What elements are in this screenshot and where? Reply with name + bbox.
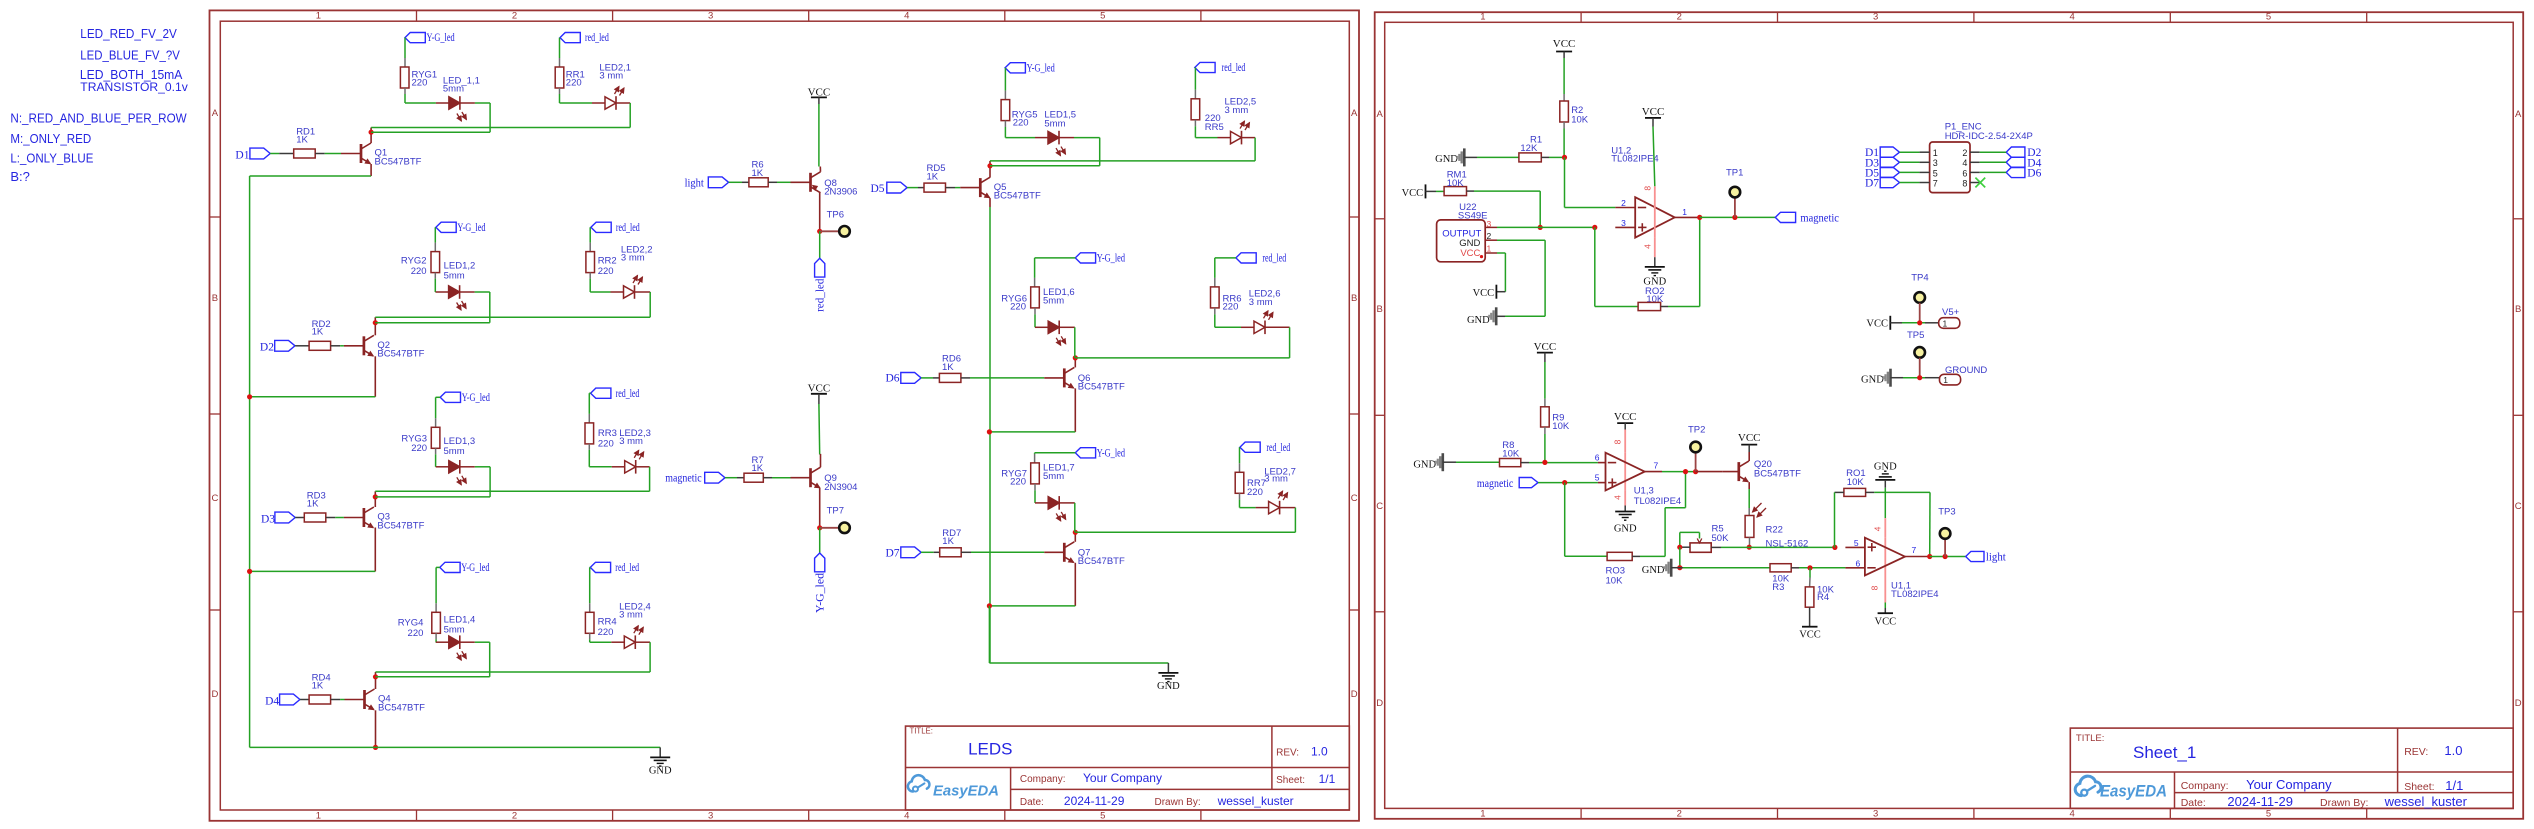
wire [819,231,821,258]
pin 3 [1919,158,1937,168]
op-amp U1,3 TL082IPE4 [1606,453,1682,508]
svg-text:V5+: V5+ [1942,307,1960,318]
test point ground [1914,347,1925,378]
wire [725,477,744,479]
pin 7 [1919,178,1937,188]
wire [1254,138,1256,161]
wire [374,491,376,507]
svg-text:1K: 1K [296,134,308,145]
wire [1662,471,1696,473]
svg-text:BC547BTF: BC547BTF [1754,468,1801,479]
net flag D3 [261,512,295,525]
svg-text:5mm: 5mm [443,84,464,95]
svg-text:RYG4: RYG4 [398,617,424,628]
ground GND [1467,307,1496,326]
pin 3 [1485,219,1497,229]
svg-text:2N3904: 2N3904 [824,482,857,493]
wire [921,377,939,379]
wire [1074,138,1100,166]
net flag D4 [2006,157,2041,169]
svg-text:2: 2 [512,811,517,822]
wire [818,394,821,455]
wire [1980,171,2007,173]
svg-text:10K: 10K [1571,114,1589,125]
svg-text:5mm: 5mm [1044,118,1065,129]
svg-text:VCC: VCC [1799,630,1821,641]
wire [989,606,1168,663]
photoresistor R22 NSL-5162 [1745,503,1808,549]
wire [250,746,661,748]
svg-text:C: C [1351,493,1358,504]
svg-text:red_led: red_led [616,388,640,400]
svg-text:GND: GND [1614,524,1637,535]
svg-text:GND: GND [649,765,672,776]
test point TP5 / connector V5+ [1907,307,1960,341]
svg-text:VCC: VCC [1534,341,1557,353]
annotation B:? [10,169,30,184]
junction [1542,460,1547,465]
pin 4 [1962,158,1979,168]
wire [331,699,345,701]
wire [1696,471,1723,473]
power VCC [1402,184,1426,199]
svg-text:8: 8 [1612,439,1622,444]
transistor Q6 BC547BTF [1044,367,1125,392]
wire [1541,156,1564,158]
wire [1074,503,1076,532]
junction [1073,355,1078,360]
wire [589,227,591,251]
svg-text:B: B [2515,304,2521,315]
wire [1521,462,1598,464]
resistor RR7 220 [1235,472,1266,498]
svg-text:5mm: 5mm [444,271,465,282]
pin 5 [1845,538,1865,548]
svg-text:2N3906: 2N3906 [824,187,857,198]
power VCC [1614,411,1637,423]
ground [1614,506,1637,535]
annotation TRANSISTOR_0.1v [80,82,188,94]
wire [1749,537,1751,547]
wire [1809,568,1811,587]
wire [1035,453,1076,463]
wire [649,642,651,672]
resistor RM1 10K [1444,170,1467,196]
net flag magnetic [1775,212,1839,224]
wire [989,161,991,177]
svg-text:5: 5 [2266,12,2271,23]
net flag red_led [815,258,827,312]
svg-text:2: 2 [1621,198,1626,208]
resistor RR2 220 [586,252,617,277]
svg-text:5mm: 5mm [444,625,465,636]
wire [1194,68,1196,99]
net flag red_led [591,222,640,234]
junction [987,163,992,168]
wire [1835,492,1844,547]
wire [768,181,790,183]
junction [1592,225,1597,230]
svg-text:Sheet_1: Sheet_1 [2133,743,2196,762]
resistor RD5 1K [924,163,946,192]
svg-text:Y-G_led: Y-G_led [461,562,489,574]
LED LED2,2 3 mm [611,244,653,298]
svg-text:VCC: VCC [1875,617,1897,628]
junction [1927,554,1932,559]
wire [961,551,1044,553]
transistor Q3 BC547BTF [344,507,425,531]
op-amp U1,2 TL082IPE4 [1611,145,1675,237]
pin 8 [1642,186,1654,238]
svg-text:1K: 1K [312,327,324,338]
ground [649,747,672,776]
junction [1538,225,1543,230]
net flag D2 [260,340,295,353]
svg-text:Company:: Company: [1020,774,1066,785]
svg-text:VCC: VCC [1642,106,1665,118]
svg-text:Sheet:: Sheet: [1276,775,1305,786]
svg-text:TP5: TP5 [1907,330,1924,341]
LED LED1,6 5mm [1035,287,1075,345]
LED LED1,3 5mm [436,460,475,485]
test point TP4 [1911,273,1928,323]
wire [1653,118,1655,186]
wire [990,165,1100,167]
pin 5 [1595,473,1606,483]
wire [629,103,631,128]
svg-text:Y-G_led: Y-G_led [1097,447,1125,459]
resistor RO3 10K [1606,552,1633,586]
annotation LED_RED_FV_2V [80,26,177,41]
svg-text:TL082IPE4: TL082IPE4 [1891,589,1939,600]
net flag magnetic [665,472,725,484]
net flag magnetic [1477,478,1538,491]
net flag light [1966,551,2007,563]
resistor RD7 1K [940,528,962,557]
svg-text:7: 7 [1912,545,1917,555]
wire [370,128,372,144]
wire [1890,322,1938,324]
svg-text:red_led: red_led [1262,253,1286,265]
svg-text:R22: R22 [1766,525,1783,536]
svg-text:Y-G_led: Y-G_led [1097,253,1125,265]
svg-text:N:_RED_AND_BLUE_PER_ROW: N:_RED_AND_BLUE_PER_ROW [10,111,187,126]
wire [250,356,376,397]
svg-text:GND: GND [1435,154,1458,165]
svg-text:magnetic: magnetic [1800,213,1839,225]
wire [270,153,294,155]
svg-text:220: 220 [411,266,427,277]
svg-text:Date:: Date: [2181,797,2206,809]
svg-text:1/1: 1/1 [2445,778,2463,793]
wire [1700,216,1776,218]
svg-text:RYG2: RYG2 [401,255,427,266]
transistor Q4 BC547BTF [345,689,426,713]
junction [373,320,378,325]
title block [906,726,1350,810]
svg-text:D7: D7 [886,548,900,560]
svg-text:Y-G_led: Y-G_led [1027,62,1055,74]
ground GND [1642,559,1671,577]
transistor Q1 BC547BTF [341,143,422,167]
wire [436,567,440,612]
wire [1544,353,1546,407]
svg-text:3 mm: 3 mm [619,436,643,447]
wire [1900,151,1920,153]
svg-text:Y-G_led: Y-G_led [427,32,455,44]
wire [1866,492,1930,556]
svg-text:GND: GND [1861,375,1884,386]
svg-text:220: 220 [598,439,614,450]
wire [1930,556,1966,558]
wire [1544,427,1546,462]
svg-text:wessel_kuster: wessel_kuster [2384,794,2468,809]
svg-text:220: 220 [1010,301,1026,312]
net flag Y-G_led [405,32,455,44]
svg-text:4: 4 [2069,12,2074,23]
svg-text:3 mm: 3 mm [1225,105,1249,116]
transistor Q7 BC547BTF [1044,542,1125,567]
svg-text:220: 220 [598,266,614,277]
wire [249,176,251,747]
junction [1677,565,1682,570]
wire [1791,567,1845,569]
LED LED2,4 3 mm [611,602,650,650]
svg-text:2: 2 [1962,148,1967,158]
svg-text:3 mm: 3 mm [599,71,623,82]
power VCC [1553,38,1576,52]
wire [434,227,436,251]
svg-text:5: 5 [1595,473,1600,483]
svg-text:BC547BTF: BC547BTF [377,520,424,531]
wire [589,567,592,612]
svg-text:3: 3 [1873,12,1878,23]
pin 8 [1870,576,1886,603]
potentiometer R5 50K [1680,523,1729,552]
transistor Q2 BC547BTF [344,335,425,359]
wire [989,198,991,663]
wire [250,528,376,572]
wire [435,448,437,467]
resistor R3 10K [1770,564,1791,593]
wire [1900,161,1920,163]
svg-text:light: light [1986,552,2007,564]
svg-text:8: 8 [1870,585,1880,590]
pin 8 [1612,430,1625,453]
svg-text:D: D [1376,698,1383,709]
svg-text:EasyEDA: EasyEDA [933,784,999,800]
wire [1497,226,1595,228]
svg-text:C: C [1376,501,1383,512]
pin 1 [1919,148,1937,158]
transistor Q8 2N3906 [791,167,858,198]
wire [375,316,650,318]
junction [1073,530,1078,535]
wire [1809,607,1811,626]
net flag D3 [1865,157,1900,169]
svg-text:Y-G_led: Y-G_led [457,222,485,234]
net flag Y-G_led [440,392,490,404]
svg-text:7: 7 [1654,460,1659,470]
wire [300,699,309,701]
svg-text:Sheet:: Sheet: [2404,781,2434,793]
svg-text:TP1: TP1 [1726,167,1743,178]
svg-text:EasyEDA: EasyEDA [2100,783,2167,801]
power VCC [1738,432,1761,445]
svg-text:B: B [212,293,218,304]
title text TITLE: [910,727,933,736]
svg-text:TP3: TP3 [1938,506,1955,517]
svg-text:Company:: Company: [2181,780,2229,792]
wire [375,672,377,689]
wire [649,292,651,317]
power VCC [1642,106,1665,118]
svg-text:TP6: TP6 [827,210,844,221]
wire [1565,483,1607,557]
svg-text:5mm: 5mm [444,446,465,457]
wire [376,671,651,673]
svg-text:1.0: 1.0 [2444,743,2462,758]
power VCC [808,86,831,98]
resistor RR3 220 [585,423,617,450]
svg-text:1: 1 [1933,148,1938,158]
wire [1980,161,2007,163]
net flag D7 [1865,177,1900,189]
transistor Q5 BC547BTF [960,177,1041,201]
net flag D1 [1865,147,1900,159]
power VCC [1875,613,1897,627]
net flag D2 [2006,147,2041,159]
wire [250,164,372,176]
svg-text:12K: 12K [1520,143,1538,154]
pin 2 [1485,231,1497,241]
junction [1693,469,1698,474]
svg-text:220: 220 [1223,301,1239,312]
pin 2 [1962,148,1979,158]
svg-text:GND: GND [1467,315,1490,326]
wire [1215,308,1241,327]
wire [590,633,612,642]
svg-text:A: A [212,108,219,119]
wire [1443,461,1500,463]
junction [373,494,378,499]
annotation N:_RED_AND_BLUE_PER_ROW [10,111,187,126]
svg-text:3: 3 [1621,218,1626,228]
pin 6 [1962,168,1979,178]
wire [1467,191,1541,227]
transistor Q9 2N3904 [791,454,858,493]
wire [729,181,749,183]
svg-text:5: 5 [1100,11,1105,22]
wire [405,88,436,103]
net flag D6 [886,372,922,384]
resistor RD4 1K [309,673,331,704]
wire [1240,493,1256,507]
hall sensor U22 SS49E [1437,202,1488,262]
wire [436,397,441,427]
svg-text:2024-11-29: 2024-11-29 [2227,794,2293,809]
wire [989,388,1075,432]
junction [1683,469,1688,474]
sheet frame left [210,10,1360,821]
junction [1943,554,1948,559]
wire [818,97,820,166]
annotation LED_BOTH_15mA [80,67,183,82]
svg-text:1: 1 [1480,809,1485,820]
resistor RYG3 220 [401,427,475,457]
wire [295,517,304,519]
pin 6 [1595,453,1606,463]
resistor RYG6 220 [1001,287,1039,312]
wire [434,273,436,292]
test point TP7 [820,506,850,534]
wire [1538,482,1598,484]
svg-text:VCC: VCC [1738,432,1761,444]
svg-text:red_led: red_led [585,32,609,44]
svg-text:5: 5 [1854,538,1859,548]
pin 1 [1485,244,1497,254]
annotation M:_ONLY_RED [10,131,91,146]
power VCC [1534,341,1557,353]
title text Date [1020,794,1294,808]
wire [1679,547,1681,568]
svg-text:1K: 1K [752,463,764,474]
net flag red_led [591,388,640,400]
annotation LED_BLUE_FV_?V [80,47,180,62]
resistor RR5 220 [1191,99,1224,133]
wire [1496,253,1505,292]
svg-text:5: 5 [2266,809,2271,820]
svg-text:GND: GND [1413,459,1436,470]
svg-text:2: 2 [1677,12,1682,23]
svg-text:1: 1 [316,811,321,822]
junction [987,603,992,608]
svg-text:1.0: 1.0 [1311,745,1328,759]
svg-text:D6: D6 [2027,167,2041,179]
pin 7 [1645,460,1662,471]
net flag Y-G_led [815,553,827,613]
svg-text:1: 1 [1487,244,1492,254]
resistor RYG7 220 [1001,463,1039,487]
wire [1563,52,1565,102]
wire [315,153,341,155]
transistor Q20 BC547BTF [1723,459,1801,482]
svg-text:50K: 50K [1712,533,1730,544]
svg-text:TP2: TP2 [1688,424,1705,435]
net flag D5 [1865,167,1900,179]
wire [1075,531,1295,533]
svg-text:4: 4 [1612,495,1622,500]
svg-text:red_led: red_led [1222,62,1246,74]
junction [1747,545,1752,550]
junction [1832,545,1837,550]
junction [247,569,252,574]
LED LED2,3 3 mm [612,428,651,474]
svg-text:VCC: VCC [1402,188,1424,199]
svg-text:U1,3: U1,3 [1634,486,1654,497]
wire [331,345,344,347]
svg-text:1K: 1K [307,498,319,509]
junction [1917,320,1922,325]
svg-text:3: 3 [1873,809,1878,820]
net flag red_led [1236,253,1286,265]
ground [1157,663,1180,692]
wire [1900,171,1920,173]
resistor R8 10K [1500,440,1521,467]
net flag D7 [886,547,922,560]
svg-text:red_led: red_led [815,278,827,312]
wire [371,131,490,133]
